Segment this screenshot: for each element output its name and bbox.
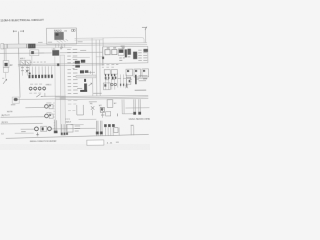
U1 pin squares — [71, 30, 73, 32]
wire right horizontal — [125, 107, 149, 109]
wire K1 right — [39, 52, 44, 54]
junction dot SW cluster — [29, 73, 31, 75]
arrow symbol far left — [3, 79, 7, 84]
far right cluster — [126, 77, 131, 84]
switch lever mid — [36, 94, 42, 97]
center harness band — [76, 75, 96, 78]
wire gauge right — [18, 98, 55, 100]
connector pair bottom — [55, 120, 57, 131]
dashed boundary — [53, 102, 55, 132]
wire risers center — [92, 38, 104, 96]
band left end cap — [1, 44, 4, 49]
pump box — [77, 105, 84, 115]
wire second bus left — [0, 52, 103, 53]
triple vertical connector bottom — [96, 121, 102, 136]
wire LCC to right — [71, 119, 97, 125]
relay labels top — [107, 47, 125, 49]
right cluster relays — [126, 69, 133, 76]
U1 hatch scribble — [57, 39, 69, 43]
bottom rule — [6, 134, 149, 138]
wire left edge down — [4, 44, 6, 61]
relay armature dark — [84, 83, 87, 90]
dark component M1 — [52, 50, 59, 56]
center cluster label blobs — [80, 70, 84, 73]
junction text cluster center — [75, 60, 85, 68]
wire pair center horizontal — [75, 40, 104, 57]
controller box small — [107, 100, 113, 108]
text marks under fuse area — [102, 64, 118, 66]
node ticks on bus — [7, 44, 27, 48]
harness bus bar — [3, 44, 35, 48]
label under bus lines — [89, 101, 97, 103]
diode labels — [30, 61, 46, 63]
vertical pair wires right — [134, 99, 141, 112]
mid cluster boxes — [104, 70, 110, 75]
wire antenna down — [18, 31, 20, 44]
mid cluster wires down — [105, 74, 115, 80]
SW marks below — [21, 68, 29, 71]
corner bracket top right — [142, 27, 147, 31]
wire bus top — [35, 43, 147, 44]
wire bus mid — [35, 45, 147, 46]
relay box cluster — [103, 83, 110, 90]
long wire down left — [18, 48, 20, 97]
wire tag labels above bus — [38, 42, 86, 51]
solenoid SV2 — [46, 112, 51, 114]
wire label row — [30, 83, 42, 85]
bottom cluster pump circles — [35, 127, 39, 131]
page label box bottom — [87, 140, 104, 145]
connector block on bus — [28, 44, 35, 49]
CN mark under M1 — [60, 47, 63, 49]
cluster pin marks — [105, 74, 130, 86]
left connector CN2 — [3, 61, 9, 68]
wire vertical left of band — [54, 56, 57, 132]
connector feet row mid bottom — [104, 124, 115, 127]
relay bank dark — [118, 49, 124, 56]
wire tick mid — [88, 71, 95, 74]
antenna symbol top — [13, 30, 24, 32]
triple bus lines — [55, 95, 148, 99]
right box frame — [103, 46, 148, 63]
wire switch right — [43, 95, 61, 97]
gauge component — [12, 97, 19, 103]
gauge label — [11, 104, 15, 106]
lever arrow center — [89, 83, 92, 86]
U1 dark module — [54, 32, 63, 40]
wire risers to bottom rule — [105, 127, 113, 136]
ring tag text row — [29, 92, 41, 94]
vertical harness band — [60, 55, 66, 135]
wire right box left edge — [102, 47, 104, 66]
box frame right mid — [122, 99, 133, 114]
diode row — [29, 66, 51, 74]
terminal rings row — [29, 87, 45, 91]
solenoid SV1 — [46, 102, 51, 104]
wire bottom to right — [21, 127, 96, 130]
fuse box small — [105, 50, 110, 55]
dense cluster top — [105, 73, 126, 89]
battery bottom — [62, 124, 67, 133]
center node mark — [84, 79, 86, 82]
ground bottom — [36, 132, 39, 135]
resistor box bottom right — [114, 128, 118, 133]
text block right of relay — [138, 50, 147, 60]
diode row feet — [28, 75, 52, 79]
wires to solenoids — [25, 107, 44, 109]
wire bus lower — [35, 46, 71, 48]
cluster rings — [111, 83, 113, 85]
bus mid double wire — [18, 63, 103, 66]
scan grain overlay — [0, 14, 150, 144]
label column rows — [67, 49, 78, 93]
wire K1 down — [31, 56, 33, 64]
wires SW down — [22, 65, 27, 75]
U1 pin wires — [56, 44, 65, 48]
op box U1 radio — [46, 28, 76, 44]
mid cluster feet — [105, 77, 107, 79]
cluster text rows — [105, 78, 127, 79]
dark node on box — [102, 57, 104, 59]
transistor X mark — [26, 70, 28, 73]
wire corner down — [144, 27, 146, 42]
component K1 — [30, 50, 39, 56]
